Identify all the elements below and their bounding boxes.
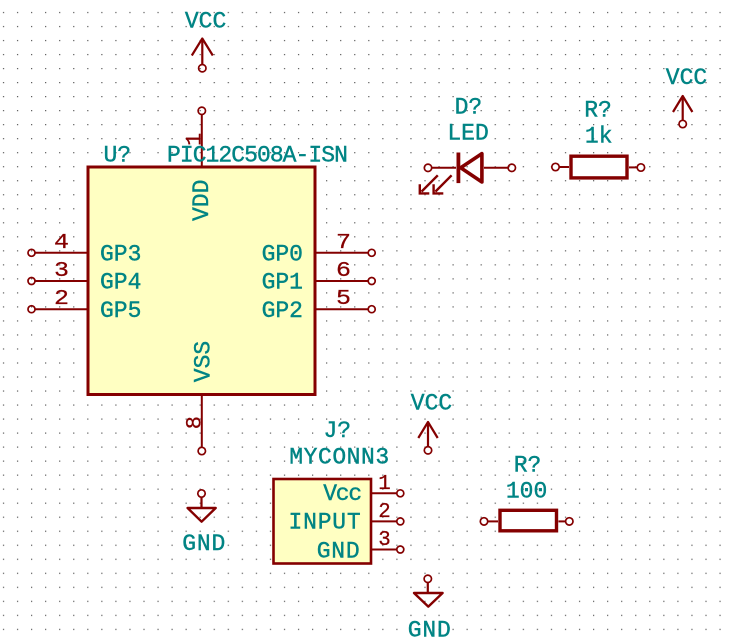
svg-text:5: 5	[336, 288, 351, 311]
svg-text:R?: R?	[584, 98, 612, 124]
svg-text:MYCONN3: MYCONN3	[289, 444, 389, 470]
svg-text:VSS: VSS	[190, 341, 216, 382]
svg-text:GND: GND	[317, 539, 361, 565]
svg-text:PIC12C508A-ISN: PIC12C508A-ISN	[167, 142, 347, 168]
svg-text:J?: J?	[323, 418, 351, 444]
svg-text:VCC: VCC	[411, 391, 452, 417]
svg-text:INPUT: INPUT	[288, 509, 361, 535]
svg-text:7: 7	[336, 232, 351, 255]
svg-text:Vcc: Vcc	[323, 481, 361, 507]
svg-text:GP3: GP3	[100, 241, 141, 267]
svg-text:GP2: GP2	[262, 298, 303, 324]
svg-text:VCC: VCC	[185, 9, 226, 35]
svg-text:GND: GND	[408, 617, 452, 642]
svg-text:GP1: GP1	[262, 270, 303, 296]
svg-text:GND: GND	[182, 531, 226, 557]
svg-text:2: 2	[54, 288, 69, 311]
svg-text:2: 2	[378, 501, 391, 524]
svg-text:3: 3	[378, 529, 391, 552]
svg-text:3: 3	[54, 260, 69, 283]
svg-text:VDD: VDD	[189, 180, 215, 221]
svg-text:LED: LED	[447, 121, 488, 147]
svg-text:VCC: VCC	[666, 65, 707, 91]
svg-text:U?: U?	[104, 142, 132, 168]
svg-text:1k: 1k	[585, 124, 613, 150]
svg-text:6: 6	[336, 260, 351, 283]
svg-text:1: 1	[378, 473, 391, 496]
svg-text:4: 4	[54, 232, 69, 255]
svg-text:GP0: GP0	[262, 241, 303, 267]
svg-text:D?: D?	[455, 95, 483, 121]
svg-text:100: 100	[506, 478, 547, 504]
svg-text:GP5: GP5	[100, 298, 141, 324]
svg-text:8: 8	[183, 416, 208, 429]
svg-text:GP4: GP4	[100, 270, 141, 296]
svg-text:R?: R?	[514, 453, 542, 479]
